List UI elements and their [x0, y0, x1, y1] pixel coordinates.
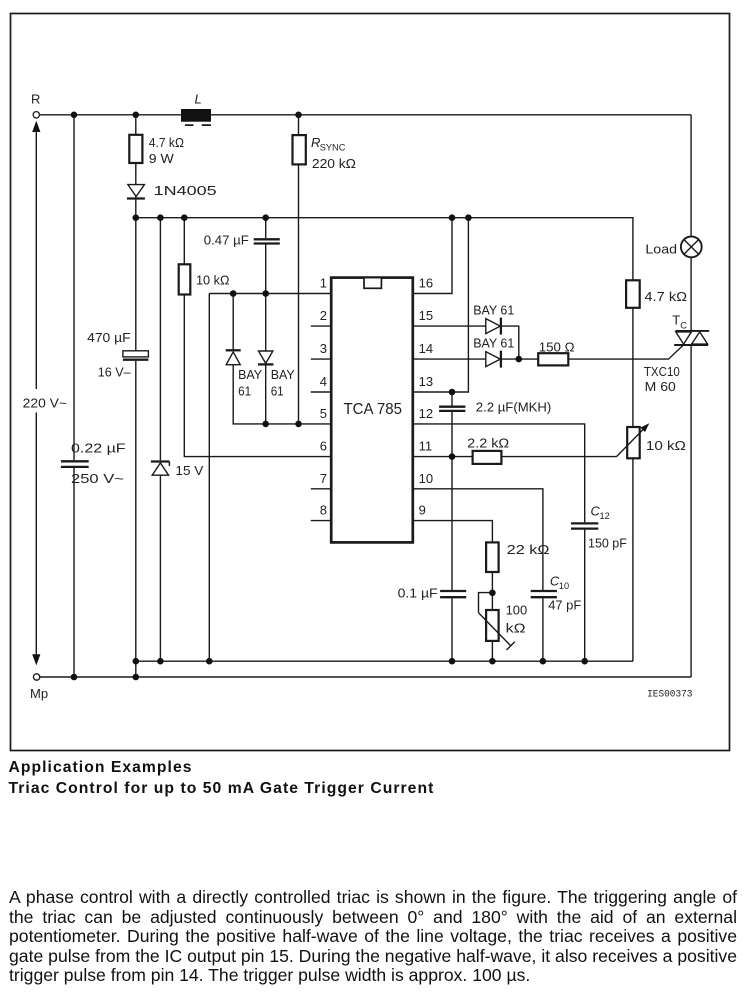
svg-text:47 pF: 47 pF: [548, 598, 581, 613]
svg-text:9: 9: [419, 503, 426, 518]
svg-text:470 µF: 470 µF: [87, 330, 131, 345]
svg-text:14: 14: [419, 341, 433, 356]
svg-text:T: T: [672, 313, 680, 328]
svg-text:12: 12: [419, 406, 433, 421]
svg-text:8: 8: [320, 503, 327, 518]
svg-text:TXC10: TXC10: [644, 364, 680, 379]
svg-text:2: 2: [320, 308, 327, 323]
svg-text:250 V~: 250 V~: [71, 471, 124, 486]
svg-text:16 V–: 16 V–: [98, 365, 132, 380]
svg-text:15 V: 15 V: [175, 463, 203, 478]
svg-text:10 kΩ: 10 kΩ: [646, 438, 686, 453]
svg-text:2.2 kΩ: 2.2 kΩ: [467, 436, 509, 451]
svg-text:4.7 kΩ: 4.7 kΩ: [149, 135, 184, 150]
svg-text:10: 10: [559, 581, 569, 591]
svg-text:3: 3: [320, 341, 327, 356]
svg-text:11: 11: [419, 439, 433, 454]
svg-text:220 V~: 220 V~: [23, 396, 68, 411]
svg-text:1: 1: [320, 276, 327, 291]
svg-text:10 kΩ: 10 kΩ: [196, 273, 230, 288]
svg-text:kΩ: kΩ: [506, 621, 526, 636]
svg-text:BAY: BAY: [271, 367, 295, 382]
svg-text:C: C: [680, 321, 687, 331]
svg-text:150 Ω: 150 Ω: [539, 339, 575, 354]
svg-text:0.1 µF: 0.1 µF: [398, 586, 438, 601]
svg-text:BAY 61: BAY 61: [473, 302, 514, 317]
svg-text:4.7 kΩ: 4.7 kΩ: [644, 289, 687, 304]
svg-text:Load: Load: [645, 242, 677, 257]
svg-text:0.22 µF: 0.22 µF: [71, 441, 126, 456]
svg-text:12: 12: [600, 511, 610, 521]
svg-text:4: 4: [320, 374, 327, 389]
svg-text:M 60: M 60: [645, 379, 676, 394]
svg-text:61: 61: [271, 383, 284, 398]
svg-text:10: 10: [419, 471, 433, 486]
svg-text:SYNC: SYNC: [320, 143, 346, 153]
svg-text:TCA 785: TCA 785: [344, 401, 403, 418]
svg-text:2.2 µF(MKH): 2.2 µF(MKH): [476, 400, 552, 415]
svg-text:220 kΩ: 220 kΩ: [312, 156, 356, 171]
svg-text:16: 16: [419, 276, 433, 291]
svg-text:1N4005: 1N4005: [154, 183, 217, 198]
svg-text:IES00373: IES00373: [647, 689, 692, 701]
svg-text:61: 61: [238, 383, 251, 398]
svg-text:22 kΩ: 22 kΩ: [507, 542, 550, 557]
svg-text:150 pF: 150 pF: [588, 536, 627, 551]
svg-text:9 W: 9 W: [149, 151, 175, 166]
svg-text:L: L: [195, 92, 202, 107]
svg-text:13: 13: [419, 374, 433, 389]
svg-text:7: 7: [320, 471, 327, 486]
svg-text:6: 6: [320, 439, 327, 454]
svg-text:5: 5: [320, 406, 327, 421]
svg-text:Mp: Mp: [30, 686, 48, 701]
svg-text:15: 15: [419, 308, 433, 323]
svg-text:100: 100: [506, 603, 528, 618]
svg-text:BAY: BAY: [238, 367, 262, 382]
svg-text:R: R: [31, 92, 40, 107]
svg-text:0.47 µF: 0.47 µF: [204, 233, 249, 248]
svg-text:BAY 61: BAY 61: [473, 335, 514, 350]
